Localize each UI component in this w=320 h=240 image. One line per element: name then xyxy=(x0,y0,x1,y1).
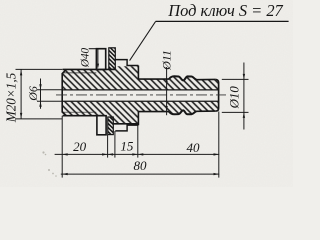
d40 dimension arrow xyxy=(97,49,99,66)
svg-text:M20×1,5: M20×1,5 xyxy=(3,72,18,123)
hex corner bar lower (hatched) xyxy=(108,117,114,135)
barb wavy top edge xyxy=(169,76,197,80)
dim d10 line xyxy=(243,63,245,130)
svg-text:Ø11: Ø11 xyxy=(160,50,174,71)
svg-text:Ø6: Ø6 xyxy=(26,86,40,102)
part outline: left face with chamfers xyxy=(62,69,66,115)
dim d10 extensions xyxy=(222,78,249,80)
tube bottom edge xyxy=(197,110,216,112)
svg-text:40: 40 xyxy=(187,140,201,155)
svg-text:Ø40: Ø40 xyxy=(79,47,91,68)
hex right face upper xyxy=(137,66,139,80)
dimension row 20/15/40 xyxy=(55,153,220,155)
hex silhouette steps lower xyxy=(115,125,138,131)
svg-text:80: 80 xyxy=(134,158,148,173)
dim M20x1.5 top extension xyxy=(16,68,63,70)
extension verticals bottom dims xyxy=(61,116,63,178)
dim d6 extensions xyxy=(37,89,62,91)
neck top edge xyxy=(138,78,169,80)
scan noise specks xyxy=(42,151,56,176)
neck bottom edge xyxy=(138,111,169,113)
hex corner bar upper (hatched) xyxy=(109,48,116,70)
d40 extension tick xyxy=(89,48,97,50)
title underline xyxy=(156,20,289,22)
dim d6 line xyxy=(40,79,42,109)
collar boss bottom xyxy=(97,116,106,135)
hex right face lower xyxy=(137,112,139,126)
body bottom edge hex zone xyxy=(113,123,138,125)
svg-text:15: 15 xyxy=(120,138,134,153)
svg-text:Ø10: Ø10 xyxy=(228,86,242,110)
paper grain xyxy=(0,0,1,1)
bore line top xyxy=(62,89,218,91)
collar boss top (d40 silhouette) xyxy=(96,49,105,70)
tube tip face xyxy=(216,79,219,111)
dim M20x1.5 line xyxy=(20,69,22,119)
thread outer top edge xyxy=(63,68,116,70)
hex silhouette steps upper xyxy=(115,60,138,66)
svg-text:Под ключ S = 27: Под ключ S = 27 xyxy=(167,1,283,20)
thread outer bottom edge xyxy=(63,116,105,119)
dim d11 line xyxy=(166,67,168,115)
thread minor diameter thin lines xyxy=(64,72,97,74)
hatch upper body band xyxy=(63,66,219,89)
barb wavy bottom edge xyxy=(169,110,197,114)
hatch lower body band xyxy=(63,102,219,124)
tube top edge xyxy=(197,78,216,80)
dim M20x1.5 bottom extension xyxy=(15,118,62,120)
svg-text:20: 20 xyxy=(73,139,87,154)
title leader line xyxy=(130,21,156,60)
centerline xyxy=(56,94,226,96)
bore line bottom xyxy=(62,100,218,102)
dimension row 80 xyxy=(61,173,219,175)
